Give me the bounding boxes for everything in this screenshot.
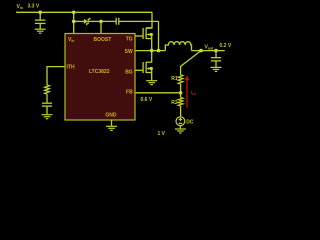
wire Vin rail drop to Q1 drain: [146, 12, 152, 27]
node: FB junction: [179, 91, 183, 95]
svg-text:ITH: ITH: [67, 64, 75, 70]
svg-text:GND: GND: [105, 113, 117, 119]
wire Vin pin drop: [73, 12, 75, 33]
resistor R2: [178, 98, 183, 106]
svg-text:DC: DC: [186, 119, 194, 125]
wire source to ground: [179, 126, 181, 129]
svg-text:0.2 V: 0.2 V: [220, 43, 232, 49]
node: BOOST pin junction: [99, 20, 103, 24]
inductor L1: [165, 42, 191, 51]
ground (Q2 source): [146, 81, 157, 85]
wire SW line: [135, 50, 165, 52]
svg-text:SW: SW: [125, 49, 133, 55]
svg-text:0.6 V: 0.6 V: [141, 97, 153, 103]
svg-text:FB: FB: [126, 90, 133, 96]
svg-text:BG: BG: [125, 70, 133, 76]
capacitor C1 (input bypass): [35, 12, 46, 29]
node: SW / boost cap junction: [157, 49, 161, 53]
wire Vin rail: [16, 11, 152, 13]
svg-text:BOOST: BOOST: [94, 37, 112, 43]
svg-text:R1: R1: [171, 76, 178, 82]
wire R2 to source: [180, 106, 182, 117]
ic U1 LTC3822 body: [65, 34, 135, 121]
node: rail / Vin-pin junction: [72, 11, 76, 15]
wire boost branch right: [119, 20, 158, 22]
wire GND pin stub: [111, 120, 113, 126]
svg-text:R2: R2: [171, 100, 178, 106]
wire Rith to Cith: [46, 94, 48, 103]
capacitor C2 (boost flying cap): [116, 18, 119, 25]
transistor Q1 (top MOSFET): [135, 28, 152, 51]
node: boost tee junction: [72, 20, 76, 24]
svg-text:TG: TG: [126, 37, 133, 43]
ground (ITH network): [42, 115, 53, 119]
svg-text:LTC3822: LTC3822: [89, 69, 110, 75]
wire boost branch mid: [89, 20, 116, 22]
diode D1 (boost schottky): [84, 18, 90, 25]
capacitor Cith: [42, 103, 52, 114]
node: Vout / Cout junction: [214, 49, 218, 53]
capacitor C3 (output): [211, 51, 221, 67]
svg-text:1 V: 1 V: [158, 131, 166, 137]
resistor Rith: [45, 85, 50, 94]
red current arrow Ifb: [185, 75, 197, 107]
wire R1 to FB node: [180, 84, 182, 98]
node: Vout divider tap: [199, 49, 203, 53]
voltage source V1 DC: [176, 117, 185, 126]
node: rail / C1 junction: [38, 11, 42, 15]
wire FB horizontal: [135, 92, 181, 94]
ground (output cap): [211, 67, 222, 71]
node: SW / Q1 source junction: [150, 49, 154, 53]
wire boost drop to SW node: [158, 21, 160, 50]
transistor Q2 (bottom MOSFET): [135, 51, 152, 81]
resistor R1: [178, 75, 183, 84]
ground (DC source): [175, 129, 186, 133]
wire ITH branch: [47, 67, 65, 85]
wire boost branch left: [74, 20, 84, 22]
svg-text:3.3 V: 3.3 V: [28, 4, 40, 10]
wire BOOST pin drop: [100, 21, 102, 33]
ground (IC GND pin): [106, 126, 117, 130]
wire feedback diagonal: [181, 51, 201, 75]
wire output line: [192, 50, 225, 52]
ground (input cap): [35, 29, 46, 33]
